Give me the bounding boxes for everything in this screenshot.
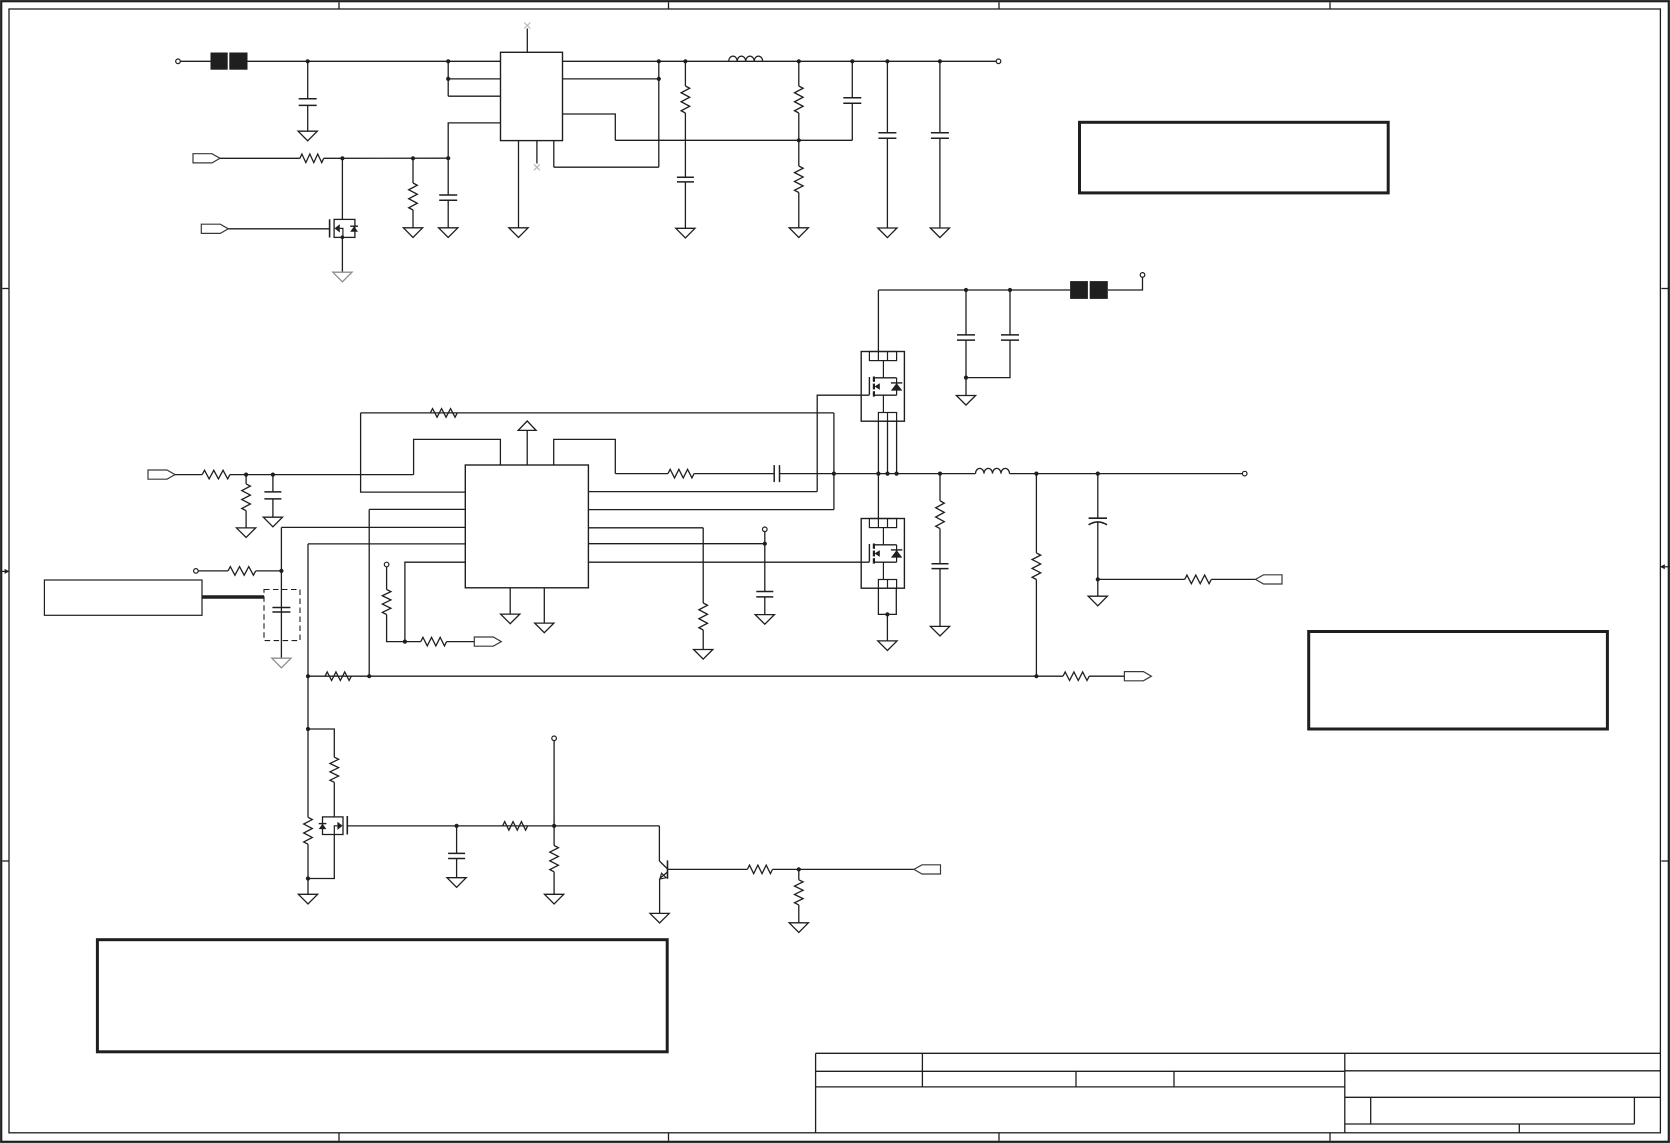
callout pointer line (202, 595, 264, 599)
wire C10 to SW (780, 473, 834, 475)
wire U2 gate2 stub (588, 561, 869, 563)
resistor R7 (242, 484, 251, 511)
ground R24 (789, 923, 808, 933)
port J8 (control in) (552, 736, 557, 741)
wire R3 top (684, 61, 686, 86)
wire R3 to C3 (684, 113, 686, 177)
ground Q3 (650, 913, 669, 923)
wire R11 elbow (387, 615, 405, 642)
capacitor C7 (957, 335, 975, 340)
frame zone tick right y=288.5 (1661, 288, 1668, 290)
wire C4 to FB line (851, 103, 853, 140)
node ILIM junction (279, 569, 283, 573)
wire M1 drain feed (877, 290, 879, 352)
wire U2 pin SS stub (369, 508, 465, 510)
resistor R5 (795, 166, 804, 193)
resistor R1 (300, 154, 324, 163)
node VCC junction (763, 542, 767, 546)
wire VCC drop (764, 532, 766, 592)
no-connect X U1 top (524, 23, 530, 29)
wire R22 to ground (553, 872, 555, 895)
wire U1 pin4 elbow (448, 123, 500, 158)
ground R15 (694, 650, 713, 660)
frame zone tick top x=339 (338, 2, 340, 9)
resistor R23 (747, 865, 772, 874)
resistor R3 (681, 86, 690, 113)
wire U1 pin2 stub (448, 78, 500, 80)
wire comp riser (405, 562, 465, 641)
ground C15 (447, 878, 466, 888)
wire C2 to ground (447, 200, 449, 228)
resistor R19 (330, 757, 339, 782)
wire M2 drain feed (877, 474, 879, 519)
capacitor C3 (677, 177, 694, 182)
flag PGOOD (net port) (201, 224, 228, 233)
wire U2 pin ILIM stub (281, 526, 465, 528)
node rail junction C (797, 59, 801, 63)
node EN div junction 2 (271, 473, 275, 477)
wire EN tie vertical (447, 61, 449, 96)
node C7 gnd junction (964, 376, 968, 380)
wire C4 top (851, 61, 853, 98)
ground C11 (272, 658, 291, 668)
wire R4 top (798, 61, 800, 86)
wire U1 bottom pin1 (518, 141, 520, 228)
resistor R12 (421, 637, 447, 646)
wire R6 to elbow (230, 474, 414, 476)
node M1 pin2 (885, 472, 889, 476)
node M1 pin3 (895, 472, 899, 476)
wire R7 to ground (245, 511, 247, 528)
resistor R16 (936, 501, 945, 529)
wire gate line (347, 825, 659, 827)
capacitor C9 (264, 492, 281, 499)
capacitor C2 (439, 195, 457, 200)
wire gate Q1 (228, 228, 329, 230)
IC U2 (465, 465, 588, 588)
wire U2 SW stub (588, 509, 834, 511)
wire F1 to U1 pin1 (VIN rail) (248, 60, 501, 62)
ground R2 (403, 228, 422, 238)
wire C5 to ground (886, 138, 888, 228)
wire R14 stub left (1036, 675, 1063, 677)
no-connect X U1 bottom (534, 164, 540, 170)
port J1 (input) (176, 59, 181, 64)
transistor M1 (high-side FET module) (861, 352, 904, 422)
wire BST elbow (554, 439, 616, 473)
node RT junction (306, 674, 310, 678)
wire R16 to C13 (939, 529, 941, 564)
wire C5 top (886, 61, 888, 132)
transistor M2 (low-side FET module) (861, 519, 904, 589)
wire C7 bottom (965, 340, 967, 395)
wire U2 CS stub (588, 527, 703, 529)
wire RT line (308, 675, 1036, 677)
capacitor C12 (756, 592, 773, 597)
wire R9 to C10 (694, 473, 774, 475)
wire FB left drop (361, 413, 466, 492)
flag DISCH (net port) (914, 865, 941, 874)
resistor R10 (228, 567, 256, 576)
ground U2 pin1 (501, 614, 520, 624)
wire U1 bottom pin3 stub (553, 141, 555, 168)
wire J8 down (553, 741, 555, 826)
wire R12 to flag (447, 641, 475, 643)
wire sense line (1098, 578, 1185, 580)
port J3 (block2 input) (1140, 273, 1145, 278)
wire U2 bottom pin2 (543, 588, 545, 623)
wire R19 to Q2 drain (333, 782, 335, 817)
flag SS (net port) (193, 154, 220, 163)
node rail junction A (657, 59, 661, 63)
port J6 (VCC) (763, 527, 768, 532)
wire U1 pin6 elbow (563, 114, 616, 140)
IC U1 (501, 52, 563, 140)
wire FB top line (361, 412, 834, 414)
wire C2 drop (447, 158, 449, 195)
frame zone tick left y=861 (2, 860, 9, 862)
wire BST line left (615, 473, 668, 475)
capacitor C4 (843, 98, 861, 104)
node rail junction D (850, 59, 854, 63)
node EN div junction 1 (244, 473, 248, 477)
node snub junction (938, 472, 942, 476)
node pin7 tie (657, 77, 661, 81)
wire J1 to F1 (180, 60, 210, 62)
ground M2 (878, 641, 897, 651)
wire U2 gate1 stub (588, 491, 817, 493)
resistor R2 (409, 183, 418, 210)
resistor R13 (325, 672, 351, 681)
frame zone tick top x=1330 (1329, 2, 1331, 9)
wire R12 stub (405, 641, 421, 643)
capacitor C15 (448, 853, 465, 858)
wire FB tap upper (1035, 474, 1037, 553)
frame zone tick bottom x=1330 (1329, 1133, 1331, 1141)
wire SS drop (368, 509, 370, 676)
wire SW out rail (1010, 473, 1243, 475)
wire C3 to ground (684, 182, 686, 228)
wire R24 top (798, 869, 800, 879)
node RT tie SS (367, 674, 371, 678)
wire flag to R6 (175, 474, 202, 476)
resistor R4 (795, 86, 804, 113)
ground R7 (237, 528, 256, 538)
wire C8 top (1009, 290, 1011, 335)
wire U2 bottom pin1 (509, 588, 511, 614)
wire C6 top (939, 61, 941, 132)
flag VOUT_SNS (net port) (1256, 575, 1283, 584)
wire FB line (615, 139, 852, 141)
transistor Q2 (NMOS mirrored) (319, 816, 348, 835)
ground Q2 source (298, 894, 317, 904)
resistor R22 (550, 846, 559, 872)
wire U1 pin3 stub (448, 95, 500, 97)
capacitor C1 (299, 99, 317, 106)
wire FB tap lower (1035, 580, 1037, 677)
ground C9 (263, 517, 282, 527)
resistor R15 (699, 603, 708, 630)
ground R5 (789, 228, 808, 238)
flag COMP (net port) (474, 637, 501, 646)
node C2 junction (446, 156, 450, 160)
title block (816, 1053, 1661, 1133)
wire C13 to ground (939, 569, 941, 627)
node SW junction (832, 472, 836, 476)
node disch junction (306, 727, 310, 731)
wire R1 to node (324, 157, 449, 159)
wire C6 to ground (939, 138, 941, 228)
node gate junction 1 (455, 824, 459, 828)
frame zone tick bottom x=999 (998, 1133, 1000, 1141)
resistor R8 (430, 409, 457, 418)
wire C1 drop (307, 61, 309, 99)
frame zone tick right y=861 (1661, 860, 1668, 862)
wire C9 top (272, 475, 274, 492)
wire U1 output rail (563, 60, 997, 62)
power arrow VCC U2 (518, 421, 536, 465)
inductor L1 (729, 56, 763, 61)
wire M2 source pins (878, 588, 896, 614)
frame center arrow left (0, 569, 9, 574)
node VOUT junction 2 (1096, 472, 1100, 476)
resistor R20 (304, 817, 313, 844)
wire C14 bottom (1097, 522, 1099, 596)
note box 1 (top right) (1080, 122, 1389, 193)
node rail junction E (885, 59, 889, 63)
wire U2 pin RT stub (308, 543, 465, 545)
wire gate elbow down (658, 826, 660, 861)
wire U1 top pin (526, 29, 528, 53)
wire Q3 emitter (659, 879, 661, 914)
wire R18 to flag (1211, 578, 1255, 580)
wire disch branch (308, 729, 334, 757)
wire C15 top (456, 826, 458, 854)
wire rail tie vertical (658, 61, 660, 167)
port J5 (freq set) (384, 562, 389, 567)
flag VIN_EN (net port) (148, 470, 175, 479)
resistor R17 (1032, 553, 1041, 580)
wire R15 to ground (702, 630, 704, 650)
node VIN junction 2 (446, 59, 450, 63)
frame zone tick bottom x=668.5 (668, 1133, 670, 1141)
wire R20 top (307, 729, 309, 817)
capacitor C8 (1001, 335, 1019, 340)
capacitor C6 (931, 133, 949, 139)
resistor R14 (1063, 672, 1089, 681)
wire R2 drop (412, 158, 414, 183)
wire R10 to node (256, 570, 282, 572)
wire CS drop (702, 528, 704, 603)
node rail junction B (683, 59, 687, 63)
port J2 (block1 output) (996, 59, 1001, 64)
ground R22 (545, 894, 564, 904)
ground C3 (676, 228, 695, 238)
ground C13 (930, 626, 949, 636)
wire ILIM drop (280, 527, 282, 658)
note box 3 (middle right) (1309, 632, 1608, 730)
fuse F2 (1070, 281, 1108, 299)
note box 2 (bottom left) (97, 940, 667, 1052)
wire Q2 source (308, 835, 334, 879)
node rail junction F (938, 59, 942, 63)
wire U2 VCC stub (588, 543, 764, 545)
frame center arrow right (1660, 564, 1670, 569)
wire F2 to J3 (1108, 277, 1143, 290)
wire M2 source to ground (886, 614, 888, 641)
transistor Q1 (NMOS with body diode) (330, 219, 358, 239)
port J7 (output) (1242, 471, 1247, 476)
node C14 gnd junction (1096, 577, 1100, 581)
ground C7 C8 (956, 396, 975, 406)
node VIN2 junction 1 (964, 288, 968, 292)
wire U1 bottom pin2 stub (536, 141, 538, 164)
ground C1 (298, 131, 317, 141)
wire R16 top (939, 474, 941, 501)
resistor R21 (503, 822, 528, 831)
node FB junction (797, 138, 801, 142)
wire C1 to ground (307, 105, 309, 131)
node FB tap junction (1034, 674, 1038, 678)
capacitor C11 (272, 608, 290, 613)
wire C12 to ground (764, 597, 766, 615)
resistor R6 (202, 470, 230, 479)
dashed box (optional C11) (264, 590, 300, 641)
ground U2 pin2 (535, 623, 554, 633)
wire RT drop (307, 544, 309, 729)
frame zone tick top x=999 (998, 2, 1000, 9)
node VIN2 junction 2 (1008, 288, 1012, 292)
wire SW riser (833, 413, 835, 510)
node VIN junction 1 (306, 59, 310, 63)
node EN tie (446, 77, 450, 81)
wire C15 to ground (456, 859, 458, 878)
node Q2 source tie (306, 876, 310, 880)
node base junction (797, 867, 801, 871)
wire M1 pins to SW (878, 421, 896, 473)
ground C2 (439, 228, 458, 238)
wire R20 bottom (307, 844, 309, 894)
wire C9 to ground (272, 499, 274, 517)
resistor R11 (382, 590, 391, 615)
wire Q1 source (341, 237, 343, 272)
node VOUT junction 1 (1034, 472, 1038, 476)
wire R14 to flag (1089, 675, 1124, 677)
wire EN hop to U2 top pin (414, 439, 501, 474)
port J4 (ILIM set) (194, 569, 199, 574)
node M2 source (885, 612, 889, 616)
ground U1 pin1 (509, 228, 528, 238)
ground C14 (1088, 596, 1107, 606)
capacitor C10 (series) (774, 465, 779, 482)
wire R4 mid (798, 113, 800, 166)
wire U1 pin7 stub (563, 78, 659, 80)
ground C12 (755, 615, 774, 625)
wire R5 to ground (798, 193, 800, 228)
node R2 junction (411, 156, 415, 160)
frame zone tick top x=668.5 (668, 2, 670, 9)
wire bottom elbow horizontal (554, 166, 659, 168)
node Q1 drain junction (340, 156, 344, 160)
capacitor C5 (878, 133, 896, 139)
fuse F1 (211, 53, 248, 70)
transistor Q3 (NPN mirrored) (659, 860, 667, 879)
note box callout (44, 580, 202, 615)
inductor L2 (976, 468, 1010, 473)
frame zone tick bottom x=339 (338, 1133, 340, 1141)
wire R23 to flag (773, 868, 915, 870)
ground C5 (878, 228, 897, 238)
ground Q1 source (333, 272, 352, 282)
resistor R9 (668, 469, 694, 478)
wire R24 to ground (798, 905, 800, 923)
wire R22 top (553, 826, 555, 846)
capacitor C14 (polarized) (1089, 518, 1107, 525)
wire gate1 riser (817, 395, 869, 491)
wire C14 top (1097, 474, 1099, 519)
wire Q3 base (668, 868, 748, 870)
wire C8 bottom (966, 340, 1010, 378)
flag FB (net port) (1124, 672, 1151, 681)
resistor R24 (795, 880, 804, 905)
wire R2 to ground (412, 210, 414, 228)
node comp junction (403, 640, 407, 644)
node M1 pin1 (876, 472, 880, 476)
node gate junction 2 (552, 824, 556, 828)
capacitor C13 (932, 564, 949, 569)
ground C6 (930, 228, 949, 238)
wire J5 down (386, 567, 388, 590)
resistor R18 (1185, 575, 1212, 584)
wire SW line (834, 473, 976, 475)
frame zone tick left y=288.5 (2, 288, 9, 290)
wire C7 top (965, 290, 967, 335)
wire J4 to R10 (198, 570, 228, 572)
wire R7 top (245, 475, 247, 484)
wire VIN2 top (878, 289, 1070, 291)
wire Q1 drain (341, 158, 343, 219)
wire SS to R1 (220, 157, 300, 159)
